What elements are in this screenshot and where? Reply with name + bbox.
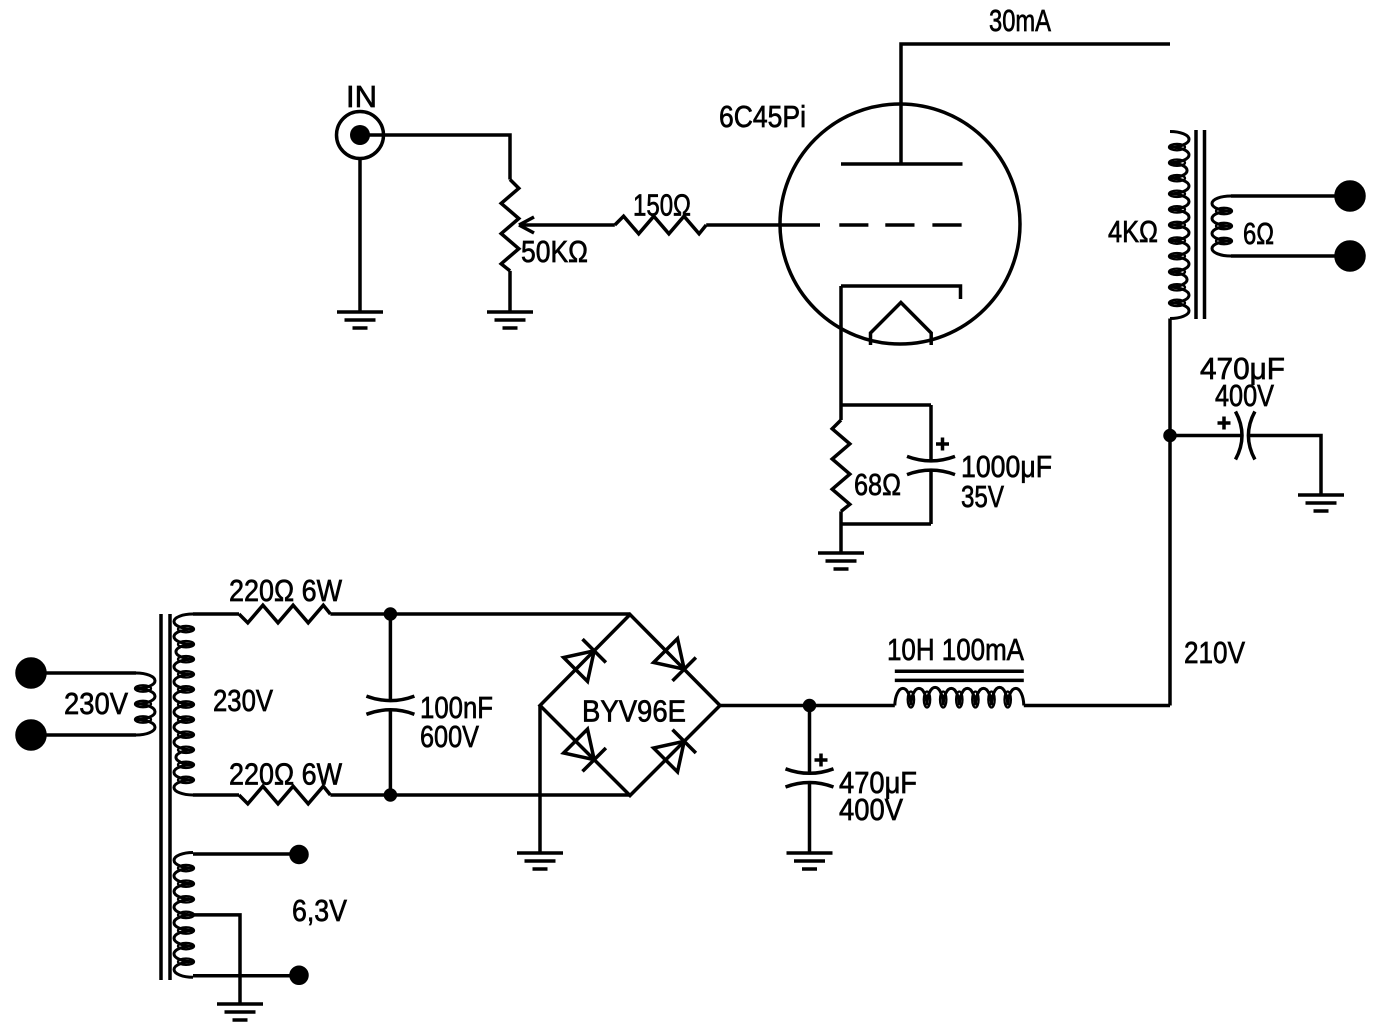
choke L1 10H 100mA: [887, 632, 1024, 708]
wire HV top to R4: [193, 612, 239, 616]
triode U1 6C45Pi envelope: [719, 99, 1020, 344]
ground (heater center tap): [217, 1004, 263, 1020]
mains terminal top: [17, 659, 45, 687]
wire grid lead: [706, 223, 820, 227]
wire heater center tap: [193, 915, 240, 1004]
svg-text:IN: IN: [346, 79, 377, 114]
svg-text:210V: 210V: [1184, 635, 1245, 670]
wire heater bottom lead: [193, 974, 291, 978]
wire B+ rail (right): [1168, 319, 1172, 706]
bridge rectifier D1 BYV96E diamond: [540, 615, 720, 796]
output terminal top: [1336, 182, 1364, 210]
grid (dashed): [839, 223, 961, 227]
capacitor C3 100nF 600V: [366, 614, 493, 795]
mains transformer core: [161, 614, 170, 980]
svg-text:400V: 400V: [839, 792, 903, 827]
output terminal bottom: [1336, 242, 1364, 270]
resistor R5 220Ω 6W: [229, 757, 343, 804]
wire choke to B+ rail: [1024, 704, 1170, 708]
wire anode lead to top rail: [901, 44, 1170, 164]
output transformer secondary 6Ω: [1212, 196, 1274, 256]
ground (C4): [787, 853, 833, 869]
svg-text:220Ω 6W: 220Ω 6W: [229, 757, 343, 792]
resistor R3 68Ω: [832, 405, 901, 524]
node C4 junction: [805, 701, 815, 711]
wire cathode lead: [839, 286, 843, 405]
svg-text:10H 100mA: 10H 100mA: [887, 632, 1024, 667]
mains transformer T2 primary 230V: [64, 673, 155, 735]
wire heater top lead: [193, 852, 291, 856]
svg-text:68Ω: 68Ω: [854, 467, 901, 502]
diode D1b (upper-right): [654, 639, 685, 670]
svg-text:6C45Pi: 6C45Pi: [719, 99, 806, 134]
wire secondary top to terminal: [1231, 194, 1336, 198]
svg-text:6Ω: 6Ω: [1243, 216, 1274, 251]
wire R5 to node: [330, 793, 630, 797]
wire to cathode ground: [839, 524, 843, 553]
node top rail / C3: [385, 609, 395, 619]
wire jack to pot top: [368, 135, 510, 180]
wire wiper to R2: [519, 223, 615, 227]
svg-text:220Ω 6W: 220Ω 6W: [229, 573, 343, 608]
svg-text:30mA: 30mA: [989, 3, 1051, 38]
ground (input jack): [337, 312, 383, 328]
resistor R4 220Ω 6W: [229, 573, 343, 623]
diode D1d (lower-right): [654, 741, 685, 772]
heater terminal top: [291, 847, 307, 863]
mains terminal bottom: [17, 721, 45, 749]
heater terminal bottom: [291, 967, 307, 983]
ground (cathode): [818, 553, 864, 569]
resistor R2 150Ω: [615, 188, 706, 234]
svg-text:400V: 400V: [1215, 378, 1274, 413]
capacitor C4 470μF 400V: [786, 706, 918, 854]
svg-text:35V: 35V: [961, 479, 1004, 514]
wire bridge negative to ground: [538, 706, 542, 854]
svg-text:6,3V: 6,3V: [292, 893, 347, 928]
wire mains top: [45, 671, 136, 675]
svg-text:BYV96E: BYV96E: [582, 694, 686, 729]
diode D1c (lower-left): [564, 729, 595, 760]
svg-text:230V: 230V: [64, 686, 128, 721]
wire cathode node top: [841, 403, 931, 407]
node bottom rail / C3: [385, 790, 395, 800]
cathode: [841, 286, 961, 299]
capacitor C1 1000μF 35V: [907, 405, 1052, 524]
svg-text:150Ω: 150Ω: [633, 188, 691, 223]
wire R4 to node: [330, 612, 630, 616]
potentiometer R1 50KΩ: [501, 180, 588, 313]
svg-text:230V: 230V: [213, 683, 273, 718]
capacitor C2 470μF 400V: [1170, 351, 1321, 495]
ground (bridge): [517, 853, 563, 869]
anode plate: [841, 162, 963, 166]
wire mains bottom: [45, 733, 136, 737]
svg-text:600V: 600V: [420, 719, 479, 754]
wire bridge + to choke: [720, 704, 895, 708]
svg-text:50KΩ: 50KΩ: [521, 234, 588, 269]
node B+ / C2 junction: [1165, 431, 1175, 441]
wire HV bottom to R5: [193, 793, 239, 797]
wire secondary bottom to terminal: [1231, 254, 1336, 258]
ground (C2): [1298, 495, 1344, 511]
input jack J1 "IN": [337, 79, 384, 159]
mains transformer HV secondary 230V: [174, 614, 273, 795]
mains transformer heater winding 6,3V: [174, 853, 347, 978]
output transformer T1 primary 4KΩ: [1108, 132, 1189, 319]
wire jack stem: [358, 159, 362, 313]
heater filament: [871, 303, 932, 346]
svg-text:4KΩ: 4KΩ: [1108, 214, 1158, 249]
ground (potentiometer): [487, 312, 533, 328]
diode D1a (upper-left): [564, 651, 595, 682]
wire cathode node bottom: [841, 522, 931, 526]
output transformer core: [1196, 130, 1205, 319]
